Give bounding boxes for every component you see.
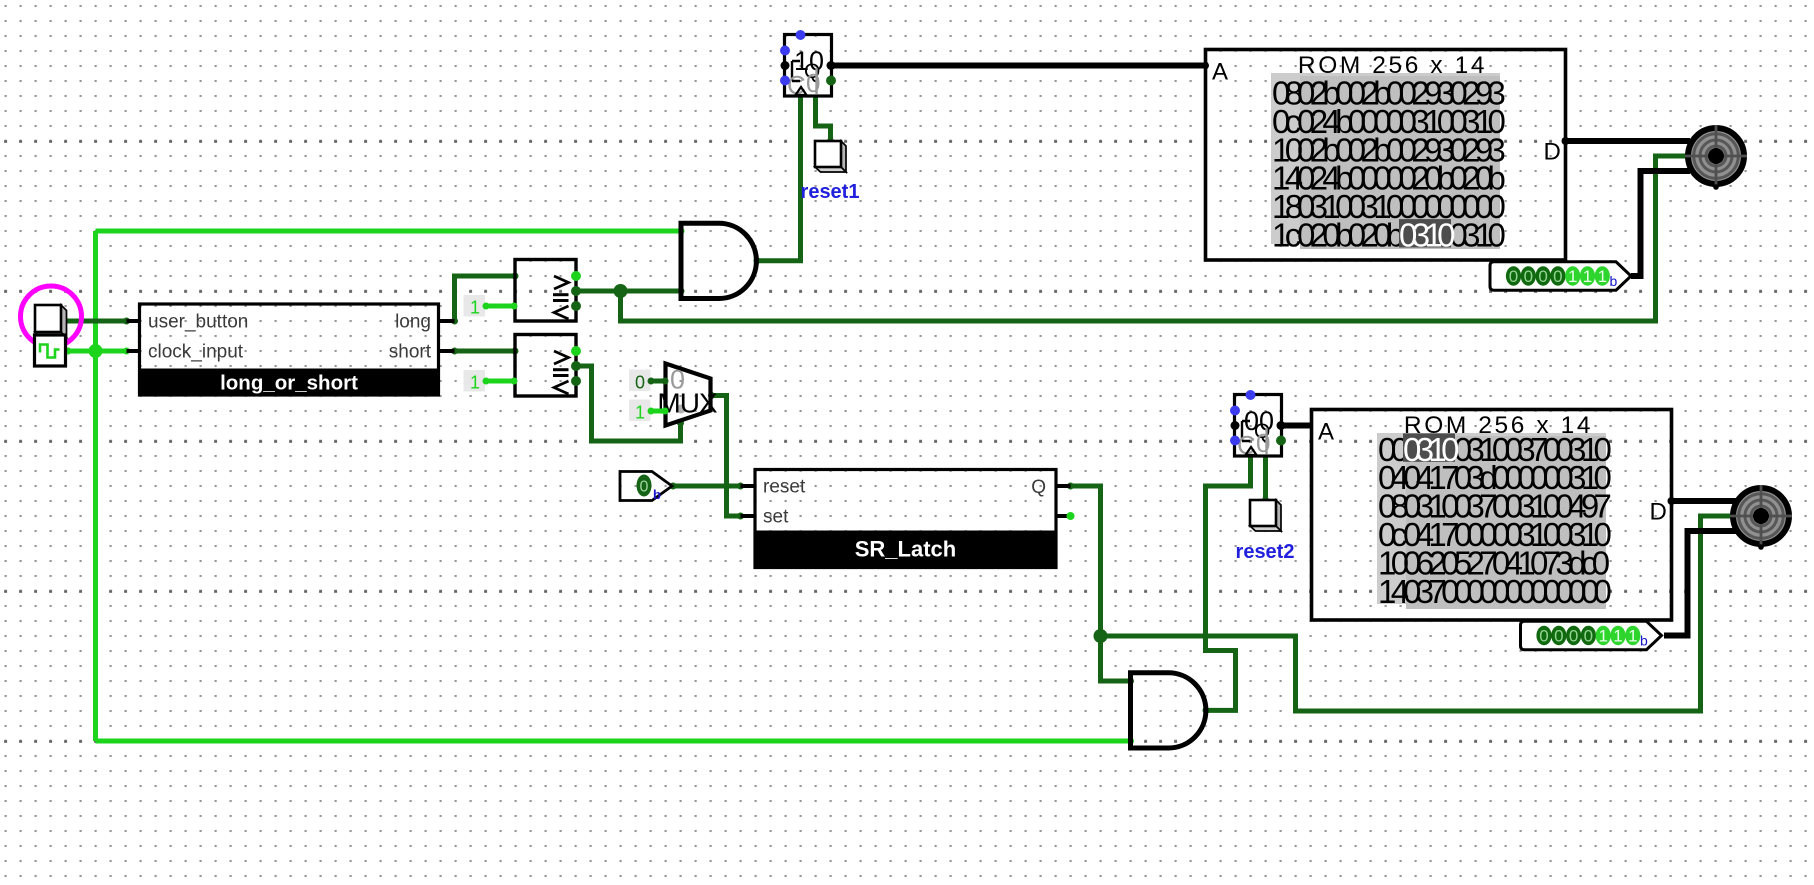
wire clock vertical trunk (93, 231, 98, 741)
wire counter1 reset to button reset1 (816, 96, 835, 145)
counter CTR1 (780, 30, 836, 100)
svg-text:0: 0 (1524, 267, 1533, 286)
pin stub user_button (127, 319, 141, 323)
svg-text:b: b (1640, 633, 1648, 649)
wire comparator1 output to buzzer1 enable (621, 156, 1691, 321)
wire long output to comparator1 A (451, 273, 519, 325)
svg-text:1: 1 (1598, 267, 1607, 286)
svg-text:A: A (1212, 59, 1228, 86)
node clock junction (89, 344, 103, 358)
wire junction to buzzer2 enable (1101, 516, 1737, 711)
svg-text:reset2: reset2 (1236, 541, 1295, 563)
svg-text:1: 1 (470, 298, 480, 318)
svg-text:0: 0 (1509, 267, 1518, 286)
wire comparator2 output to MUX select (576, 366, 684, 441)
wire junction to AND2 top input (1101, 636, 1135, 685)
wire clock to junction (65, 348, 131, 355)
wire short output to comparator2 A (451, 348, 519, 355)
ROM ROM2 256x14 (1312, 410, 1672, 621)
comparator C2 (515, 335, 581, 397)
svg-text:1: 1 (635, 403, 645, 423)
svg-text:1: 1 (470, 373, 480, 393)
constant 1 for MUX (629, 400, 669, 423)
svg-text:0310: 0310 (1399, 217, 1455, 254)
label reset2 (1236, 541, 1295, 563)
subcircuit long_or_short (140, 304, 439, 395)
svg-text:0310: 0310 (1403, 431, 1459, 468)
svg-text:1: 1 (1613, 627, 1622, 646)
svg-text:Q: Q (1031, 477, 1046, 498)
svg-text:A: A (1318, 419, 1334, 446)
ROM1 D pin dot (1562, 137, 1570, 145)
comparator C1 (515, 260, 581, 322)
wire comparator1 output to AND1 input (576, 288, 685, 295)
svg-text:1: 1 (1598, 627, 1607, 646)
wire button to user_button pin (61, 318, 131, 325)
svg-text:set: set (763, 507, 789, 528)
buzzer BZ1 (1685, 125, 1747, 190)
svg-text:0: 0 (1538, 267, 1547, 286)
bus probe2 to buzzer2 (1664, 531, 1736, 636)
ROM ROM1 256x14 (1206, 50, 1566, 261)
svg-text:0: 0 (1584, 627, 1593, 646)
node comparator1 output junction (614, 284, 628, 298)
wire clock to AND2 bottom input (96, 738, 1135, 745)
svg-text:0370000000000000: 0370000000000000 (1403, 573, 1612, 610)
svg-text:0: 0 (640, 479, 649, 496)
svg-text:short: short (389, 342, 432, 363)
svg-text:0: 0 (1256, 428, 1270, 458)
probe P2 value 0000111 (1521, 621, 1662, 649)
bus ROM2 D to buzzer2 (1672, 498, 1737, 504)
pin stub SR Q (1055, 484, 1071, 488)
svg-text:0: 0 (1553, 267, 1562, 286)
svg-text:0: 0 (1569, 627, 1578, 646)
svg-text:reset1: reset1 (801, 181, 860, 203)
constant 0 for MUX (629, 370, 669, 393)
svg-text:1: 1 (1568, 267, 1577, 286)
svg-text:0: 0 (806, 68, 820, 98)
svg-text:user_button: user_button (148, 312, 248, 333)
svg-text:b: b (1610, 273, 1618, 289)
svg-text:clock_input: clock_input (148, 342, 244, 363)
svg-text:0: 0 (1554, 627, 1563, 646)
svg-text:reset: reset (763, 477, 806, 498)
svg-text:long: long (395, 312, 431, 333)
counter CTR2 (1230, 390, 1286, 460)
AND gate U1 (681, 223, 756, 298)
constant 1 for C1 (464, 295, 518, 318)
svg-text:0: 0 (1539, 627, 1548, 646)
wire MUX output to SR set (708, 392, 744, 520)
wire counter2 reset to button reset2 (1262, 455, 1269, 504)
pin stub SR set (741, 514, 757, 518)
wire clock to AND1 top input (96, 228, 685, 235)
button reset1 (815, 141, 846, 172)
input pin button (user button) (35, 305, 67, 338)
wire SR Q output to junction (1067, 483, 1101, 637)
subcircuit SR_Latch (755, 470, 1056, 568)
input pin constant 0 (0b tag) (620, 472, 672, 503)
AND gate U2 (1131, 673, 1206, 748)
svg-text:D: D (1650, 499, 1667, 526)
multiplexer MUX (657, 364, 718, 426)
svg-text:SR_Latch: SR_Latch (855, 537, 956, 562)
pin stub SR reset (741, 484, 757, 488)
wire constant 0 pin to SR reset (670, 483, 745, 490)
wire AND2 output to counter2 clock (1203, 455, 1251, 714)
buzzer BZ2 (1730, 485, 1792, 550)
svg-text:1: 1 (1583, 267, 1592, 286)
pin stub long (438, 319, 455, 323)
svg-text:b: b (653, 487, 661, 502)
svg-text:long_or_short: long_or_short (220, 372, 358, 395)
wire AND1 output to counter1 clock (754, 96, 801, 264)
label reset1 (801, 181, 860, 203)
bus counter1 D to ROM1 A (832, 62, 1210, 69)
clock input component (35, 335, 66, 366)
bus probe1 to buzzer1 (1631, 171, 1690, 276)
node Q junction (1094, 629, 1108, 643)
constant 1 for C2 (464, 370, 518, 393)
svg-text:0: 0 (635, 373, 645, 393)
bus ROM1 D to buzzer1 (1566, 138, 1691, 144)
bus counter2 D to ROM2 A (1281, 423, 1314, 429)
probe P1 value 0000111 (1490, 262, 1631, 290)
ROM2 D pin dot (1668, 497, 1676, 505)
svg-text:D: D (1544, 139, 1561, 166)
pin stub short (438, 349, 455, 353)
pin stub SR notQ (1055, 512, 1075, 520)
annotation magenta circle (21, 286, 82, 347)
button reset2 (1250, 500, 1281, 531)
pin stub clock_input (127, 349, 141, 353)
svg-text:1: 1 (1628, 627, 1637, 646)
